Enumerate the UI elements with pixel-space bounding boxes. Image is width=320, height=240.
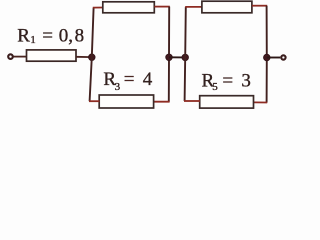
wire rail3 to R4 bbox=[185, 6, 202, 8]
resistor R1 bbox=[27, 50, 77, 61]
wire rail3 to R5 bbox=[184, 100, 200, 102]
wire R2 to rail 2 bbox=[154, 6, 170, 8]
resistor R4 (top right box) bbox=[202, 1, 252, 13]
wire rail1 to R2 bbox=[93, 7, 103, 9]
resistor R3 bbox=[99, 95, 153, 108]
wire rail 2 (vertical) bbox=[168, 7, 170, 102]
svg-text:R5=3: R5=3 bbox=[202, 70, 251, 93]
wire R5 to rail 4 bbox=[254, 101, 268, 103]
svg-text:R1=0,8: R1=0,8 bbox=[17, 25, 84, 46]
wire T1 to R1 bbox=[14, 56, 27, 58]
wire rail 4 (vertical) bbox=[266, 6, 268, 103]
wire node D to T2 bbox=[267, 57, 280, 59]
wire rail1 to R3 bbox=[89, 100, 100, 102]
svg-text:R3=4: R3=4 bbox=[103, 69, 152, 93]
node A (junction dot) bbox=[89, 54, 96, 61]
resistor R2 (top left box) bbox=[103, 2, 155, 13]
wire R1 to node A bbox=[76, 56, 92, 58]
wire R4 to rail 4 bbox=[252, 5, 267, 7]
wire rail 3 (vertical) bbox=[185, 7, 186, 101]
node D (junction dot) bbox=[264, 54, 271, 61]
node B (junction dot) bbox=[166, 54, 173, 61]
resistor R5 bbox=[200, 96, 254, 108]
wire node B to node C bbox=[169, 56, 185, 58]
node C (junction dot) bbox=[182, 54, 189, 61]
terminal T2 (right output) bbox=[281, 55, 285, 59]
terminal T1 (left input) bbox=[8, 54, 13, 59]
wire rail 1 (vertical, node A branch) bbox=[90, 8, 94, 102]
wire R3 to rail 2 bbox=[154, 101, 170, 103]
